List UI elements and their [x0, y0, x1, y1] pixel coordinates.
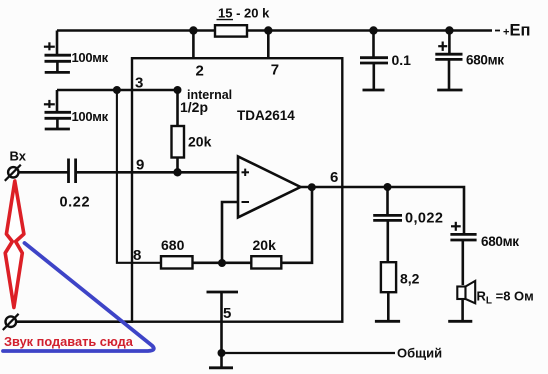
label internal [187, 88, 232, 102]
resistor R5 8,2 [381, 262, 396, 321]
svg-text:680мк: 680мк [481, 234, 519, 249]
wire pin3 node down to pin 8 [117, 90, 161, 263]
wire bottom common rail [222, 352, 396, 354]
ground bar pin5 top [207, 291, 239, 294]
label RL = 8 Ом [477, 289, 534, 307]
svg-text:+Eп: +Eп [503, 22, 530, 40]
resistor R2 20k internal [172, 90, 185, 172]
svg-text:6: 6 [330, 169, 338, 186]
wire output to C5 [388, 187, 465, 235]
svg-text:8: 8 [133, 247, 141, 264]
svg-text:8,2: 8,2 [400, 271, 420, 287]
resistor R4 20k [251, 256, 281, 268]
label +Eп [503, 22, 530, 40]
svg-text:Вх: Вх [10, 149, 27, 164]
svg-text:20k: 20k [188, 134, 212, 150]
node C7 junction [445, 26, 453, 34]
svg-text:RL =8 Ом: RL =8 Ом [477, 289, 534, 307]
label C3 value 0.22 [60, 195, 91, 211]
annotation label Звук подавать сюда [4, 334, 134, 349]
label C5 value 680мк [481, 234, 519, 249]
annotation red arrow [5, 181, 24, 308]
node pin9 junction [173, 168, 181, 176]
label C2 value 100мк [72, 109, 109, 124]
wire output pin 6 [300, 186, 388, 189]
pin label 8 [133, 247, 141, 264]
label Общий [397, 346, 442, 361]
label R3 value 680 [161, 237, 185, 253]
node internal top junction [174, 86, 182, 94]
capacitor C4 0,022 [373, 187, 402, 262]
wire feedback to output [281, 187, 312, 263]
terminal bar below LS1 [448, 320, 472, 323]
terminal input ground [3, 314, 19, 330]
svg-text:15 - 20 k: 15 - 20 k [218, 5, 270, 20]
wire input [19, 171, 69, 174]
label C4 value 0,022 [405, 211, 443, 227]
label Вх [10, 149, 27, 164]
capacitor C5 680мк output [450, 222, 476, 285]
wire inverting input [222, 202, 238, 263]
svg-text:100мк: 100мк [72, 109, 109, 124]
annotation blue pointer line [3, 243, 154, 351]
label U1 TDA2614 [237, 108, 295, 123]
wire ground input row [16, 320, 133, 323]
wire pin 2 [192, 31, 195, 59]
speaker LS1 [457, 281, 475, 321]
capacitor C6 0.1 [360, 31, 388, 91]
svg-text:5: 5 [223, 305, 231, 322]
node pin2 junction [189, 26, 197, 34]
terminal input Вх [5, 165, 21, 181]
label R2 value 20k [188, 134, 212, 150]
svg-text:Общий: Общий [397, 346, 442, 361]
resistor R1 [215, 25, 247, 36]
pin label 2 [196, 62, 204, 79]
capacitor C1 100мк [44, 31, 71, 73]
node C6 junction [369, 26, 377, 34]
svg-text:680мк: 680мк [466, 53, 504, 68]
op-amp U1a [238, 156, 301, 217]
node feedback junction [218, 259, 226, 267]
resistor R3 680 [161, 256, 193, 268]
label C7 value 680мк [466, 53, 504, 68]
node output junction [308, 183, 316, 191]
capacitor C7 680мк supply [435, 31, 462, 91]
node output filter junction [384, 183, 392, 191]
pin label 6 [330, 169, 338, 186]
svg-text:Звук подавать сюда: Звук подавать сюда [4, 334, 134, 349]
wire ground stub [220, 353, 223, 368]
label R1 value 15 - 20 k [217, 5, 271, 20]
pin label 7 [271, 62, 279, 79]
svg-text:1/2p: 1/2p [180, 99, 208, 115]
node pin7 junction [264, 26, 272, 34]
wire pin 7 [267, 31, 270, 59]
wire pin8 row between 680 and 20k [193, 261, 252, 264]
wire top supply rail [57, 29, 500, 32]
pin label 5 [223, 305, 231, 322]
terminal bar below R5 [375, 320, 400, 323]
svg-text:2: 2 [196, 62, 204, 79]
node junction on pin3 wire [113, 86, 121, 94]
label R4 value 20k [253, 237, 277, 253]
svg-text:0.22: 0.22 [60, 195, 91, 211]
pin label 3 [135, 75, 143, 92]
svg-text:3: 3 [135, 75, 143, 92]
svg-text:0.1: 0.1 [392, 52, 412, 68]
wire input to pin 9 [76, 171, 238, 174]
label R5 value 8,2 [400, 271, 420, 287]
wire pin 3 row [57, 89, 178, 92]
label C6 value 0.1 [392, 52, 412, 68]
capacitor C3 0.22 [69, 159, 76, 184]
svg-text:680: 680 [161, 237, 185, 253]
node ground junction [218, 349, 226, 357]
svg-text:0,022: 0,022 [405, 211, 443, 227]
IC U1 boundary box [132, 58, 342, 322]
label 1/2p [180, 99, 208, 115]
wire pin 5 [220, 292, 223, 353]
capacitor C2 100мк [44, 90, 71, 129]
svg-text:TDA2614: TDA2614 [237, 108, 295, 123]
svg-text:9: 9 [136, 157, 144, 174]
svg-text:100мк: 100мк [72, 50, 109, 65]
svg-text:20k: 20k [253, 237, 277, 253]
label C1 value 100мк [72, 50, 109, 65]
ground end bar [209, 366, 233, 369]
pin label 9 [136, 157, 144, 174]
svg-text:7: 7 [271, 62, 279, 79]
